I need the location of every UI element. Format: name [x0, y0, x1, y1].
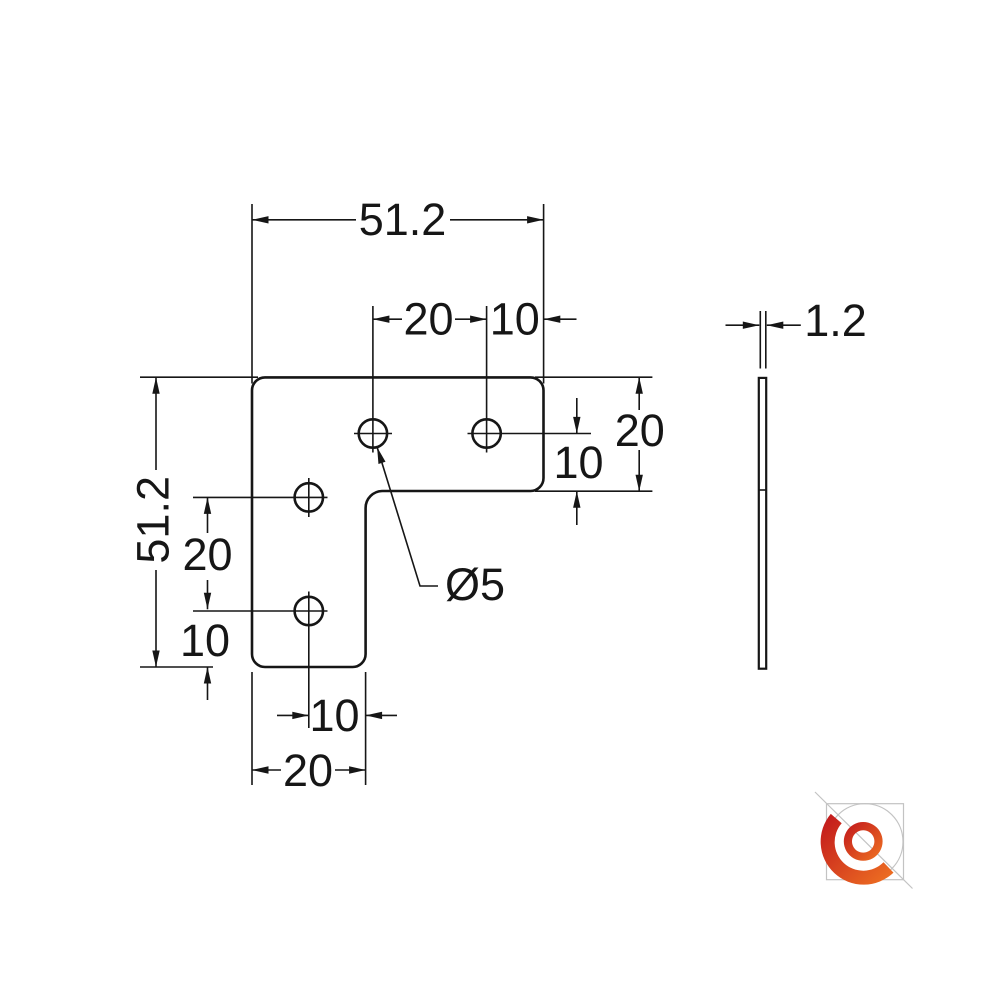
bottom dim 10 line: [277, 714, 397, 716]
bottom dims extension lines: [252, 672, 366, 785]
arrow top 20 right: [470, 316, 487, 323]
hole H4 crosshair: [193, 592, 328, 729]
hole H3 crosshair: [193, 478, 328, 517]
top width dim extension lines: [252, 204, 544, 384]
svg-text:10: 10: [553, 437, 603, 488]
svg-text:10: 10: [180, 615, 230, 666]
top hole dims line: [373, 318, 577, 320]
arrow bottom 20 left: [252, 766, 269, 773]
arrow right 10 top: [573, 417, 580, 434]
arrow right 20 top: [636, 377, 643, 394]
hole H2: [472, 419, 500, 447]
diameter leader line: [377, 447, 438, 586]
svg-text:10: 10: [309, 690, 359, 741]
thickness view mid tick: [759, 489, 766, 491]
left height dim extension lines: [140, 377, 258, 667]
logo gray square: [827, 804, 904, 880]
arrow left 51.2 bottom: [152, 651, 159, 668]
arrow left 20 bottom: [204, 593, 211, 610]
top width dim line: [252, 219, 544, 221]
svg-text:1.2: 1.2: [804, 295, 867, 346]
arrows: [152, 216, 783, 774]
svg-text:20: 20: [615, 405, 665, 456]
arrow top 20 left: [373, 316, 390, 323]
thickness view profile: [759, 378, 766, 669]
arrow right 20 bottom: [636, 475, 643, 492]
hole H1 crosshair: [354, 306, 392, 453]
arrow thickness right: [767, 322, 784, 329]
svg-text:20: 20: [403, 294, 453, 345]
svg-text:51.2: 51.2: [359, 194, 447, 245]
left height dim line: [155, 377, 157, 667]
svg-text:51.2: 51.2: [127, 476, 178, 564]
arrow leader diameter: [374, 446, 386, 464]
arrow thickness left: [743, 322, 760, 329]
right dim 10 line: [576, 398, 578, 525]
svg-text:Ø5: Ø5: [445, 559, 505, 610]
right dims extension lines: [535, 377, 652, 491]
logo inner ring: [844, 822, 883, 861]
svg-text:20: 20: [182, 529, 232, 580]
thickness dim line: [726, 324, 801, 326]
arrow left 20 top: [204, 497, 211, 514]
arrow left 51.2 top: [152, 377, 159, 394]
svg-text:10: 10: [490, 294, 540, 345]
hole H2 crosshair: [468, 306, 592, 453]
logo gray circle: [827, 804, 903, 880]
logo: [815, 792, 913, 889]
plate outline: [252, 377, 544, 667]
hole H3: [295, 483, 323, 511]
arrow top 10 outside: [544, 316, 561, 323]
arrow right 10 bottom: [573, 491, 580, 508]
svg-text:20: 20: [283, 745, 333, 796]
left hole dims line: [207, 497, 209, 700]
thickness dim extension lines: [760, 311, 766, 369]
arrow bottom 10 left outside: [292, 712, 309, 719]
arrow bottom 20 right: [349, 766, 366, 773]
arrow left 10 outside: [204, 667, 211, 684]
right dim 20 line: [638, 377, 640, 491]
arrow top 51.2 left: [252, 216, 269, 223]
logo gray diagonal: [815, 792, 913, 889]
hole H4: [295, 597, 323, 625]
bottom dim 20 line: [252, 769, 366, 771]
logo outer C arc: [821, 814, 894, 885]
hole H1: [359, 419, 387, 447]
arrow top 51.2 right: [527, 216, 544, 223]
arrow bottom 10 right outside: [366, 712, 383, 719]
